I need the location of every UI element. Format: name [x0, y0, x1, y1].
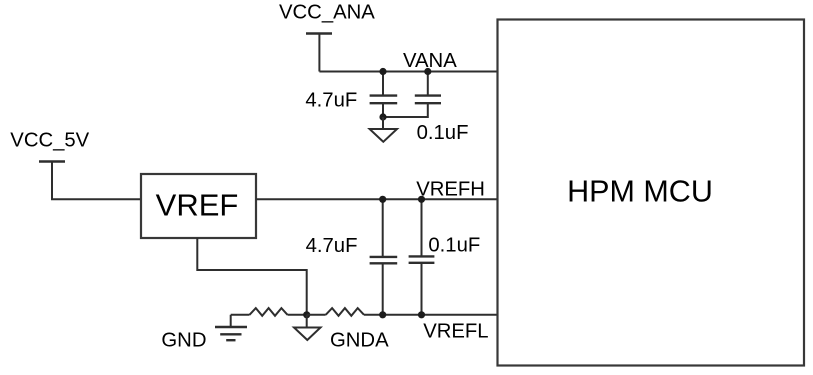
- capacitor C4 bottom lead: [421, 263, 423, 315]
- capacitor C1 4.7uF top lead: [382, 72, 384, 96]
- wire VCC_5V stem and run to VREF input: [52, 162, 141, 200]
- wire GNDA node to zigzag2: [307, 314, 326, 316]
- capacitor C3 4.7uF top lead: [382, 199, 384, 256]
- svg-text:0.1uF: 0.1uF: [428, 234, 480, 256]
- capacitor C1 4.7uF plates: [370, 96, 398, 104]
- svg-text:4.7uF: 4.7uF: [305, 90, 357, 112]
- svg-text:VCC_ANA: VCC_ANA: [279, 1, 375, 23]
- svg-text:GNDA: GNDA: [330, 329, 389, 351]
- junction VANA at C2: [424, 68, 431, 75]
- wire VREF ground return: [197, 238, 306, 315]
- wire VREFL rail to MCU: [364, 314, 498, 316]
- svg-text:VREFH: VREFH: [416, 179, 485, 201]
- junction C1/C2 bottom node: [379, 113, 386, 120]
- wire zigzag1 to GNDA node: [288, 314, 307, 316]
- power flag VCC_ANA: [306, 32, 332, 34]
- junction VREFH at C3: [379, 196, 386, 203]
- wire VCC_ANA stem down and to VANA rail: [318, 34, 320, 72]
- ground GNDA (bottom, triangle): [294, 315, 321, 340]
- svg-text:VREFL: VREFL: [423, 320, 488, 342]
- svg-text:VREF: VREF: [156, 188, 239, 223]
- resistor FB2 (zigzag GNDA to VREFL): [326, 308, 364, 316]
- capacitor C4 0.1uF plates: [409, 256, 435, 262]
- capacitor C1 bottom lead: [382, 103, 384, 117]
- resistor FB1 (zigzag GND to GNDA): [250, 308, 288, 316]
- capacitor C2 0.1uF plates: [415, 96, 441, 104]
- MCU U2 HPM MCU box: [498, 20, 805, 366]
- ground GND (earth symbol): [215, 315, 247, 340]
- capacitor C3 bottom lead: [382, 263, 384, 315]
- capacitor C3 4.7uF plates: [370, 257, 398, 263]
- svg-text:HPM MCU: HPM MCU: [567, 175, 713, 209]
- svg-text:GND: GND: [161, 329, 206, 351]
- junction VANA at C1: [379, 68, 386, 75]
- regulator U1 VREF box: [141, 174, 256, 238]
- wire VANA rail: [319, 71, 497, 73]
- ground GNDA (top, triangle): [370, 117, 397, 142]
- power flag VCC_5V: [39, 160, 65, 162]
- svg-text:4.7uF: 4.7uF: [306, 235, 358, 257]
- junction VREFL at C3: [379, 311, 386, 318]
- junction VREFH at C4: [418, 196, 425, 203]
- capacitor C4 0.1uF top lead: [421, 199, 423, 256]
- wire VREFL rail left stub: [231, 314, 250, 316]
- wire VREFH rail: [256, 198, 498, 200]
- capacitor C2 bottom lead: [383, 103, 428, 117]
- capacitor C2 0.1uF top lead: [427, 72, 429, 96]
- svg-text:VANA: VANA: [403, 50, 457, 72]
- svg-text:VCC_5V: VCC_5V: [10, 129, 89, 151]
- svg-text:0.1uF: 0.1uF: [417, 122, 469, 144]
- junction VREFL at C4: [418, 311, 425, 318]
- junction GNDA node: [303, 311, 310, 318]
